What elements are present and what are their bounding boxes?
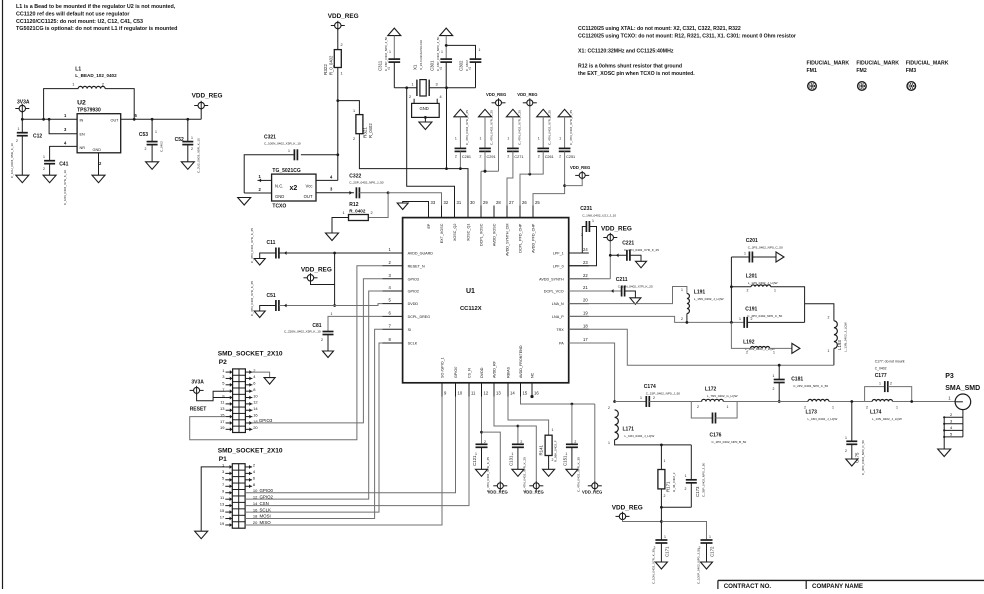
- svg-text:C_1P0_0402_NP0_B_50: C_1P0_0402_NP0_B_50: [712, 440, 747, 444]
- capacitor C52: [175, 119, 201, 173]
- svg-text:CC1120 ref des will default no: CC1120 ref des will default not use regu…: [16, 12, 130, 18]
- capacitor C181: [773, 365, 829, 403]
- wire XOSC_Q1 crystal pin3 to pin30: [445, 86, 468, 217]
- svg-text:2: 2: [409, 95, 411, 99]
- svg-text:2: 2: [664, 494, 666, 498]
- svg-text:2: 2: [43, 167, 45, 171]
- svg-text:2: 2: [773, 387, 775, 391]
- wire RF to P3: [910, 400, 955, 403]
- svg-text:1: 1: [155, 130, 157, 134]
- svg-text:C_47N_0402_X7R_K_25: C_47N_0402_X7R_K_25: [490, 110, 494, 145]
- svg-text:13: 13: [220, 501, 225, 506]
- svg-text:1: 1: [774, 289, 776, 293]
- svg-text:14: 14: [510, 391, 515, 396]
- svg-text:CS_N: CS_N: [468, 368, 472, 378]
- svg-text:1: 1: [773, 374, 775, 378]
- capacitor C177: [865, 360, 912, 402]
- ic U1 right pins 17-24: [539, 247, 589, 346]
- capacitor C11: [250, 228, 383, 263]
- svg-text:1: 1: [511, 452, 513, 456]
- svg-text:C172: C172: [710, 546, 715, 557]
- ground C131: [512, 469, 524, 476]
- svg-text:22: 22: [583, 273, 588, 278]
- svg-text:L_BEAD_102_0402: L_BEAD_102_0402: [75, 73, 117, 78]
- svg-text:C181: C181: [791, 377, 803, 383]
- svg-text:EP: EP: [427, 223, 431, 228]
- svg-text:1: 1: [479, 48, 481, 52]
- capacitor C12: [10, 119, 42, 178]
- svg-text:RBIAS: RBIAS: [507, 366, 511, 378]
- capacitor C281: [454, 109, 471, 170]
- svg-text:TG_5021CG: TG_5021CG: [272, 168, 300, 174]
- power port VDD_REG mid: [301, 267, 335, 285]
- svg-text:2: 2: [751, 317, 753, 321]
- svg-text:GPIO3: GPIO3: [408, 277, 419, 281]
- wire XOSC_Q2 crystal pin1 to pin31: [405, 86, 454, 217]
- wire C322 to pin32: [388, 193, 441, 218]
- svg-text:17: 17: [220, 514, 225, 519]
- svg-text:C251: C251: [566, 155, 575, 159]
- offpage arrow C201: [776, 252, 784, 262]
- svg-text:the EXT_XOSC pin when TCXO is: the EXT_XOSC pin when TCXO is not mounte…: [578, 71, 695, 77]
- svg-text:27: 27: [509, 200, 514, 205]
- svg-text:L1: L1: [75, 67, 81, 73]
- svg-text:CSN: CSN: [260, 501, 269, 506]
- svg-text:GPIO0: GPIO0: [454, 367, 458, 378]
- ground C53: [146, 162, 159, 170]
- power port VDD_REG c251: [565, 165, 591, 186]
- wire U2 GND: [98, 153, 100, 175]
- svg-text:2: 2: [685, 487, 687, 491]
- svg-text:LNA_N: LNA_N: [552, 302, 564, 306]
- svg-text:2: 2: [16, 139, 18, 143]
- svg-text:23: 23: [583, 260, 588, 265]
- ground C121: [476, 469, 488, 476]
- wire LNA_P net: [569, 316, 745, 323]
- svg-text:R12 is a 0ohms shunt resistor: R12 is a 0ohms shunt resistor that groun…: [578, 64, 682, 70]
- resistor R322: [323, 50, 343, 76]
- ground P1: [195, 531, 208, 539]
- svg-text:33: 33: [431, 200, 436, 205]
- note text top-right: [578, 26, 796, 77]
- header P1 SMD_SOCKET_2x10: [218, 448, 283, 529]
- wire DVDD vertical: [333, 253, 336, 307]
- svg-text:x2: x2: [290, 185, 298, 192]
- svg-text:2: 2: [828, 316, 830, 320]
- svg-text:AVDD_SYNTH: AVDD_SYNTH: [539, 277, 564, 281]
- svg-text:1: 1: [664, 535, 666, 539]
- svg-text:CC1120/25 using XTAL: do not m: CC1120/25 using XTAL: do not mount: X2, …: [578, 26, 741, 32]
- ground U2: [92, 175, 105, 183]
- svg-text:1: 1: [507, 137, 509, 141]
- svg-text:19: 19: [583, 310, 588, 315]
- svg-text:2: 2: [608, 406, 610, 410]
- fiducial FM1: [807, 61, 850, 91]
- svg-text:C171: C171: [665, 546, 670, 557]
- svg-text:TPS79930: TPS79930: [77, 108, 101, 114]
- svg-text:1: 1: [681, 288, 683, 292]
- svg-text:1: 1: [538, 137, 540, 141]
- power port VDD_REG R322: [328, 13, 359, 50]
- svg-text:16: 16: [253, 412, 258, 417]
- svg-text:MOSI: MOSI: [260, 514, 271, 519]
- svg-text:2: 2: [890, 382, 892, 386]
- svg-text:C81: C81: [312, 323, 321, 329]
- svg-text:1: 1: [828, 349, 830, 353]
- svg-text:10: 10: [253, 488, 258, 493]
- svg-text:CC112X: CC112X: [460, 306, 482, 312]
- svg-text:2: 2: [653, 396, 655, 400]
- svg-text:AVDD_FRONTEND: AVDD_FRONTEND: [519, 345, 523, 378]
- svg-text:2: 2: [469, 67, 471, 71]
- wire U2 EN tie: [49, 119, 77, 133]
- svg-text:C221: C221: [622, 241, 634, 247]
- svg-text:C_10N_0402_X7R_K_25: C_10N_0402_X7R_K_25: [618, 285, 653, 289]
- inductor L1 bead: [44, 67, 135, 120]
- svg-text:L191: L191: [694, 290, 706, 296]
- svg-text:GND: GND: [420, 106, 429, 111]
- svg-text:SCLK: SCLK: [260, 507, 272, 512]
- svg-text:2: 2: [581, 233, 583, 237]
- capacitor C302: [446, 45, 481, 87]
- resistor R141: [508, 397, 558, 470]
- svg-text:C131: C131: [508, 455, 513, 466]
- svg-text:U1: U1: [466, 288, 475, 295]
- svg-text:2: 2: [746, 351, 748, 355]
- svg-text:C_1N8_0402_U2J_J_10: C_1N8_0402_U2J_J_10: [582, 214, 616, 218]
- svg-text:C302: C302: [459, 60, 464, 71]
- svg-text:2: 2: [520, 440, 522, 444]
- svg-text:2: 2: [507, 155, 509, 159]
- svg-text:1: 1: [72, 83, 74, 87]
- capacitor C211: [569, 277, 653, 298]
- capacitor C251: [533, 109, 575, 217]
- svg-text:1: 1: [592, 219, 594, 223]
- svg-text:FM1: FM1: [807, 68, 817, 74]
- svg-text:EN: EN: [80, 133, 86, 137]
- svg-text:2: 2: [341, 43, 343, 47]
- svg-text:L_7N5_0402_G_LQW: L_7N5_0402_G_LQW: [707, 394, 738, 398]
- capacitor C121: [472, 397, 490, 493]
- ground C51: [254, 311, 265, 318]
- svg-text:C322: C322: [349, 174, 361, 180]
- ground C11: [254, 259, 265, 266]
- svg-text:C177: C177: [875, 373, 887, 379]
- ground C52: [181, 162, 194, 170]
- svg-text:1: 1: [685, 474, 687, 478]
- svg-text:FIDUCIAL_MARK: FIDUCIAL_MARK: [807, 61, 850, 67]
- svg-text:32: 32: [444, 200, 449, 205]
- svg-text:C51: C51: [267, 293, 276, 299]
- svg-text:L201: L201: [746, 274, 758, 280]
- capacitor C131: [494, 397, 526, 493]
- svg-text:C_3P0_0402_NP0_C_50: C_3P0_0402_NP0_C_50: [861, 440, 865, 475]
- svg-text:R12: R12: [349, 202, 358, 208]
- inductor L201: [731, 274, 804, 323]
- svg-text:2: 2: [697, 405, 699, 409]
- svg-text:1: 1: [845, 436, 847, 440]
- capacitor C171: [652, 535, 670, 584]
- svg-text:1: 1: [664, 459, 666, 463]
- capacitor C291: [479, 109, 499, 217]
- svg-text:C_0402: C_0402: [160, 141, 164, 152]
- svg-text:TCXO: TCXO: [272, 204, 286, 210]
- svg-text:C_2U2_0603_X5R_K_10: C_2U2_0603_X5R_K_10: [197, 138, 201, 173]
- svg-text:CC1120/25 using TCXO: do not m: CC1120/25 using TCXO: do not mount: R12,…: [578, 34, 796, 40]
- wire RF main line: [615, 401, 647, 403]
- svg-text:L_10N_0402_J_LQW: L_10N_0402_J_LQW: [625, 434, 655, 438]
- svg-text:20: 20: [253, 425, 258, 430]
- capacitor C81: [284, 312, 383, 351]
- capacitor C41: [43, 155, 69, 205]
- svg-text:L_13N_0402_J_LQW: L_13N_0402_J_LQW: [872, 417, 902, 421]
- svg-text:1: 1: [552, 428, 554, 432]
- svg-text:L193: L193: [837, 340, 842, 350]
- svg-text:TRX: TRX: [556, 328, 564, 332]
- svg-text:13: 13: [496, 391, 501, 396]
- svg-text:VDD_REG: VDD_REG: [486, 92, 506, 97]
- svg-text:2: 2: [552, 458, 554, 462]
- svg-text:1: 1: [288, 149, 290, 153]
- svg-text:C231: C231: [580, 206, 592, 212]
- regulator U2 TPS79930: [64, 100, 138, 167]
- power arrow C301: [440, 28, 453, 59]
- svg-text:GPIO3: GPIO3: [259, 418, 273, 423]
- wire RF to L173: [737, 401, 808, 403]
- svg-text:17: 17: [220, 419, 225, 424]
- svg-text:1: 1: [475, 452, 477, 456]
- svg-text:3V3A: 3V3A: [191, 380, 204, 386]
- svg-text:C_3P3_0402_NP0_C_50: C_3P3_0402_NP0_C_50: [748, 246, 783, 250]
- svg-text:13: 13: [220, 406, 225, 411]
- svg-text:C271: C271: [514, 155, 523, 159]
- svg-text:20: 20: [253, 520, 258, 525]
- svg-text:3V3A: 3V3A: [17, 100, 30, 106]
- svg-text:CONTRACT NO.: CONTRACT NO.: [724, 583, 772, 589]
- capacitor C53: [139, 119, 164, 162]
- svg-text:C_15P_0402_NP0_J_50: C_15P_0402_NP0_J_50: [646, 392, 681, 396]
- wire X2 OUT to C322: [316, 191, 354, 195]
- svg-text:XOSC_Q1: XOSC_Q1: [467, 224, 471, 241]
- svg-text:1: 1: [640, 396, 642, 400]
- svg-text:1: 1: [565, 452, 567, 456]
- svg-text:FIDUCIAL_MARK: FIDUCIAL_MARK: [906, 61, 949, 67]
- svg-text:18: 18: [583, 323, 588, 328]
- svg-text:C53: C53: [139, 132, 148, 138]
- ground C151: [566, 469, 578, 476]
- svg-text:L192: L192: [743, 340, 755, 346]
- svg-text:FIDUCIAL_MARK: FIDUCIAL_MARK: [856, 61, 899, 67]
- resistor R171: [658, 445, 676, 507]
- svg-text:R_0402: R_0402: [349, 208, 366, 213]
- svg-text:L_15N_0402_J_LQW: L_15N_0402_J_LQW: [694, 297, 724, 301]
- svg-text:2: 2: [371, 211, 373, 215]
- svg-text:DCPL_VCO: DCPL_VCO: [544, 290, 564, 294]
- wire RESET P2 to U1: [190, 266, 383, 440]
- svg-text:RESET: RESET: [190, 407, 207, 413]
- no-connect pin16: [530, 395, 533, 398]
- page border left: [2, 0, 4, 589]
- svg-text:31: 31: [457, 200, 462, 205]
- svg-text:2: 2: [747, 289, 749, 293]
- wire LNA_N to L191: [569, 287, 687, 304]
- svg-text:1: 1: [896, 406, 898, 410]
- capacitor C191: [739, 307, 805, 328]
- wire TRX net: [569, 329, 834, 366]
- svg-text:1: 1: [879, 382, 881, 386]
- svg-text:24: 24: [583, 247, 588, 252]
- svg-text:15: 15: [220, 508, 225, 513]
- svg-text:C_0402: C_0402: [875, 367, 887, 371]
- ground C81: [323, 351, 334, 358]
- svg-text:C_220N_0402_X5R_K_10: C_220N_0402_X5R_K_10: [284, 330, 321, 334]
- svg-text:10: 10: [253, 393, 258, 398]
- svg-text:C261: C261: [545, 155, 554, 159]
- svg-text:FM2: FM2: [856, 68, 866, 74]
- svg-text:1: 1: [412, 83, 414, 87]
- svg-text:2: 2: [804, 406, 806, 410]
- svg-text:C41: C41: [59, 162, 68, 168]
- svg-text:X1: CC1120:32MHz and CC1125:40: X1: CC1120:32MHz and CC1125:40MHz: [578, 49, 674, 55]
- svg-text:1: 1: [739, 317, 741, 321]
- svg-text:2: 2: [145, 147, 147, 151]
- wire X2 pin1 nc: [258, 179, 272, 183]
- inductor L193: [805, 304, 848, 365]
- svg-text:GND: GND: [275, 194, 284, 199]
- ground R12: [326, 233, 339, 241]
- ground C172: [701, 562, 713, 569]
- svg-text:1: 1: [191, 136, 193, 140]
- svg-text:1: 1: [727, 405, 729, 409]
- wire MOSI P1 to U1: [245, 329, 382, 518]
- svg-text:SMD_SOCKET_2X10: SMD_SOCKET_2X10: [218, 351, 283, 358]
- inductor L174: [865, 399, 912, 421]
- svg-text:C_33P_0402_NP0_J_50: C_33P_0402_NP0_J_50: [702, 462, 706, 497]
- header P2 SMD_SOCKET_2x10: [218, 351, 283, 433]
- svg-text:C281: C281: [462, 155, 471, 159]
- power port VDD_REG c131: [518, 426, 544, 495]
- svg-text:2: 2: [455, 155, 457, 159]
- svg-text:C_47N_0402_X7R_K_25: C_47N_0402_X7R_K_25: [250, 228, 254, 263]
- ground P2 pin2: [252, 372, 275, 384]
- svg-text:16: 16: [534, 391, 539, 396]
- power port VDD_REG c261: [517, 92, 537, 174]
- power port VDD_REG synth: [569, 226, 632, 279]
- title block: [718, 580, 984, 590]
- capacitor C301: [430, 36, 453, 87]
- ground C12: [16, 175, 29, 183]
- wire MISO P1 to U1: [245, 397, 442, 526]
- svg-text:C174: C174: [644, 384, 656, 390]
- wire R322 to X2 Vcc: [336, 68, 339, 181]
- ground EP pin33: [397, 202, 428, 218]
- wire P1 odd pins ground bus: [201, 467, 225, 531]
- capacitor C201: [731, 238, 783, 263]
- svg-text:C_2P2_0402_NP0_C_50: C_2P2_0402_NP0_C_50: [793, 384, 828, 388]
- svg-text:2: 2: [559, 155, 561, 159]
- svg-text:LPF_0: LPF_0: [553, 264, 564, 268]
- svg-text:C_100N_0402_X5R_K_10: C_100N_0402_X5R_K_10: [264, 142, 301, 146]
- svg-text:FM3: FM3: [906, 68, 916, 74]
- svg-text:C_3P3_0402_NP0_C_50: C_3P3_0402_NP0_C_50: [747, 314, 782, 318]
- svg-text:VDD_REG: VDD_REG: [328, 13, 359, 20]
- power port VDD_REG c121: [482, 432, 508, 495]
- svg-text:C_100P_0402_NP0_J_50: C_100P_0402_NP0_J_50: [697, 548, 701, 584]
- svg-text:PA: PA: [559, 342, 564, 346]
- svg-text:AVDD_RF: AVDD_RF: [493, 360, 497, 378]
- svg-text:10: 10: [458, 391, 463, 396]
- svg-text:N.C.: N.C.: [275, 184, 283, 189]
- svg-text:1: 1: [353, 109, 355, 113]
- svg-text:XOSC_Q2: XOSC_Q2: [453, 224, 457, 241]
- capacitor C51: [250, 281, 383, 316]
- svg-text:17: 17: [583, 337, 588, 342]
- svg-text:2: 2: [353, 137, 355, 141]
- svg-text:L171: L171: [623, 427, 635, 433]
- svg-text:2: 2: [574, 440, 576, 444]
- svg-text:12: 12: [253, 400, 258, 405]
- inductor L173: [804, 399, 865, 421]
- svg-text:2: 2: [538, 155, 540, 159]
- power port VDD_REG c151: [582, 404, 602, 495]
- fiducial FM3: [906, 61, 949, 91]
- power port VDD_REG pa bias: [612, 505, 707, 541]
- svg-text:28: 28: [496, 200, 501, 205]
- svg-text:2: 2: [484, 440, 486, 444]
- capacitor C231: [569, 206, 617, 266]
- svg-text:VDD_REG: VDD_REG: [601, 226, 632, 233]
- svg-text:26: 26: [522, 200, 527, 205]
- svg-text:COMPANY NAME: COMPANY NAME: [812, 583, 863, 589]
- ic U1 CC112X body: [403, 218, 569, 383]
- svg-text:C173: C173: [695, 486, 700, 497]
- svg-text:2: 2: [480, 155, 482, 159]
- wire U2 OUT to VDD_REG: [121, 118, 202, 121]
- svg-text:C291: C291: [487, 155, 496, 159]
- svg-text:21: 21: [583, 285, 588, 290]
- svg-text:30: 30: [470, 200, 475, 205]
- capacitor C322: [349, 174, 389, 199]
- capacitor C173: [660, 445, 706, 509]
- svg-text:1: 1: [744, 252, 746, 256]
- capacitor C221: [610, 241, 659, 262]
- svg-text:VDD_REG: VDD_REG: [192, 93, 223, 100]
- svg-text:14: 14: [253, 501, 258, 506]
- ground R141: [543, 469, 555, 476]
- svg-text:1: 1: [832, 406, 834, 410]
- resistor R12: [332, 193, 388, 233]
- svg-text:TG5021CG is optional: do not m: TG5021CG is optional: do not mount L1 if…: [16, 26, 177, 32]
- svg-text:2: 2: [681, 317, 683, 321]
- svg-text:1: 1: [18, 127, 20, 131]
- svg-text:SMA_SMD: SMA_SMD: [945, 385, 980, 392]
- svg-text:C12: C12: [33, 134, 42, 140]
- svg-text:C301: C301: [430, 60, 435, 71]
- capacitor C172: [697, 535, 715, 584]
- power port VDD_REG regulator output: [192, 93, 223, 120]
- svg-text:IN: IN: [80, 119, 84, 123]
- power port 3V3A P2: [190, 380, 226, 401]
- svg-text:C321: C321: [264, 135, 276, 141]
- svg-text:VDD_REG: VDD_REG: [582, 490, 602, 495]
- wire CSN P1 to U1: [245, 397, 469, 506]
- svg-text:1: 1: [441, 50, 443, 54]
- svg-text:C_10N_0402_X7R_K_16: C_10N_0402_X7R_K_16: [63, 170, 67, 205]
- wire C201 branch: [730, 257, 733, 322]
- svg-text:1: 1: [480, 137, 482, 141]
- svg-text:OUT: OUT: [110, 119, 119, 123]
- svg-text:DVDD: DVDD: [480, 367, 484, 378]
